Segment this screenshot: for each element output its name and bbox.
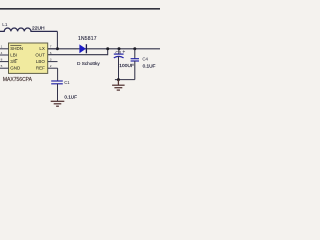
wire: REF pin down to C1 <box>57 68 59 81</box>
capacitor C3 top plate <box>114 53 124 55</box>
diode D1 <box>79 44 86 53</box>
svg-text:1N5817: 1N5817 <box>78 36 97 42</box>
svg-text:0.1UF: 0.1UF <box>64 94 77 99</box>
node C4 junction <box>133 47 136 50</box>
svg-text:3: 3 <box>50 58 52 62</box>
node C3 junction <box>118 47 121 50</box>
capacitor C4 bottom plate <box>131 60 139 62</box>
wire: ground rail under C3 C4 <box>115 79 135 81</box>
3/5 overline <box>15 59 18 61</box>
op-amp U1 MAX756 body <box>9 43 48 73</box>
pin 8 stub 3/5 <box>0 61 9 63</box>
wire: C4 bottom lead <box>134 61 136 80</box>
capacitor C3 curved plate <box>114 56 124 58</box>
ground symbol right <box>112 80 125 91</box>
wire: riser from L1 down to LX node <box>56 31 58 48</box>
pin 7 stub LX <box>48 48 58 50</box>
svg-text:4: 4 <box>1 51 3 55</box>
svg-text:C4: C4 <box>142 56 148 61</box>
svg-text:REF: REF <box>36 66 45 71</box>
svg-text:8: 8 <box>1 58 3 62</box>
pin 2 stub REF <box>48 67 58 69</box>
pin 3 stub LBO <box>48 61 58 63</box>
node LX junction <box>56 47 59 50</box>
svg-text:2: 2 <box>50 64 52 68</box>
top sheet border line <box>0 8 160 10</box>
svg-text:GND: GND <box>10 66 21 71</box>
svg-text:0.1UF: 0.1UF <box>143 64 156 69</box>
svg-text:7: 7 <box>50 45 52 49</box>
capacitor C1 bottom plate <box>51 83 63 85</box>
svg-text:22UH: 22UH <box>32 25 45 31</box>
background <box>0 0 160 110</box>
pin 5 stub GND <box>0 67 9 69</box>
node ground rail junction <box>117 78 120 81</box>
svg-text:100UF: 100UF <box>119 63 134 69</box>
svg-text:6: 6 <box>50 51 52 55</box>
SHDN overline <box>10 44 21 46</box>
svg-text:SHDN: SHDN <box>10 46 23 51</box>
svg-text:1: 1 <box>1 45 3 49</box>
svg-text:L1: L1 <box>2 22 8 27</box>
ground symbol left <box>51 101 65 106</box>
wire: C1 down to ground <box>57 84 59 101</box>
pin 4 stub LBI <box>0 54 9 56</box>
capacitor C1 top plate <box>51 80 63 82</box>
wire: OUT pin to VOUT riser <box>48 49 108 55</box>
inductor L1 <box>0 28 57 31</box>
svg-text:LBI: LBI <box>10 52 17 57</box>
wire: C4 top lead <box>134 49 136 59</box>
svg-text:D Schottky: D Schottky <box>77 61 100 66</box>
wire: C3 top lead <box>118 49 120 54</box>
svg-text:OUT: OUT <box>35 52 45 57</box>
node OUT junction <box>106 47 109 50</box>
capacitor C4 top plate <box>131 58 139 60</box>
svg-text:5: 5 <box>1 64 3 68</box>
svg-text:C1: C1 <box>64 80 70 85</box>
svg-text:LBO: LBO <box>36 59 46 64</box>
diode D1 cathode bar <box>85 44 87 53</box>
wire: C3 bottom lead <box>118 56 120 79</box>
svg-text:MAX756CPA: MAX756CPA <box>3 77 33 83</box>
svg-text:LX: LX <box>39 46 45 51</box>
pin 1 stub SHDN <box>0 48 9 50</box>
wire: main VOUT horizontal <box>48 48 160 50</box>
